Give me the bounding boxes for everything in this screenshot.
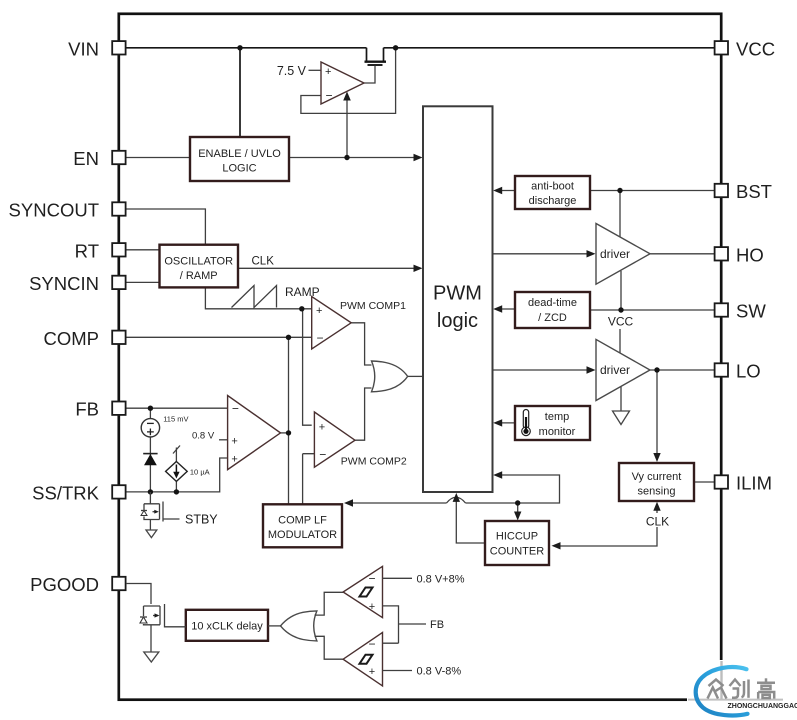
svg-text:0.8 V+8%: 0.8 V+8% [417,573,465,585]
svg-text:−: − [232,402,239,416]
svg-text:anti-boot: anti-boot [531,181,574,193]
svg-text:VCC: VCC [608,315,634,329]
svg-text:STBY: STBY [185,513,218,527]
svg-text:ILIM: ILIM [736,473,772,494]
svg-text:+: + [325,66,331,78]
svg-text:SW: SW [736,301,766,322]
svg-text:/ RAMP: / RAMP [180,270,218,282]
svg-text:ENABLE / UVLO: ENABLE / UVLO [198,148,281,160]
svg-text:0.8 V: 0.8 V [192,431,215,442]
svg-text:0.8 V-8%: 0.8 V-8% [417,665,462,677]
svg-text:+: + [316,305,322,317]
svg-text:OSCILLATOR: OSCILLATOR [164,255,233,267]
svg-text:logic: logic [437,310,478,332]
svg-text:SYNCOUT: SYNCOUT [9,200,99,221]
svg-text:VIN: VIN [68,38,99,59]
svg-text:−: − [368,572,375,586]
svg-text:driver: driver [600,363,630,377]
svg-text:+: + [231,454,237,466]
svg-text:PWM: PWM [433,283,482,305]
svg-text:+: + [369,666,375,678]
svg-text:HO: HO [736,244,764,265]
svg-text:+: + [319,422,325,434]
svg-text:LOGIC: LOGIC [222,163,256,175]
svg-text:RT: RT [75,240,99,261]
svg-text:CLK: CLK [646,515,669,529]
svg-text:115 mV: 115 mV [163,415,188,424]
svg-text:/ ZCD: / ZCD [538,312,567,324]
svg-text:monitor: monitor [539,426,576,438]
svg-text:COUNTER: COUNTER [490,546,544,558]
svg-text:−: − [326,89,333,103]
svg-text:PWM COMP1: PWM COMP1 [340,300,406,312]
svg-text:+: + [231,436,237,448]
svg-text:driver: driver [600,247,630,261]
svg-text:10 xCLK delay: 10 xCLK delay [191,621,263,633]
svg-text:dead-time: dead-time [528,297,577,309]
svg-text:PWM COMP2: PWM COMP2 [341,456,407,468]
svg-text:−: − [317,331,324,345]
svg-text:VCC: VCC [736,38,775,59]
svg-text:+: + [369,601,375,613]
svg-text:discharge: discharge [529,195,577,207]
svg-text:FB: FB [430,619,444,631]
svg-text:sensing: sensing [638,486,676,498]
svg-text:RAMP: RAMP [285,285,320,299]
svg-text:SYNCIN: SYNCIN [29,273,99,294]
svg-text:−: − [319,447,326,461]
svg-text:FB: FB [75,399,99,420]
svg-text:SS/TRK: SS/TRK [32,482,99,503]
svg-text:10 µA: 10 µA [190,468,210,477]
svg-text:HICCUP: HICCUP [496,531,538,543]
svg-text:BST: BST [736,181,772,202]
svg-text:MODULATOR: MODULATOR [268,529,337,541]
svg-text:temp: temp [545,411,569,423]
svg-text:Vy current: Vy current [632,471,682,483]
svg-text:COMP: COMP [44,328,100,349]
svg-text:ZHONGCHUANGGAO: ZHONGCHUANGGAO [728,703,797,710]
svg-text:7.5 V: 7.5 V [277,64,307,78]
svg-text:EN: EN [73,148,99,169]
svg-text:PGOOD: PGOOD [30,574,99,595]
svg-text:LO: LO [736,361,761,382]
svg-text:−: − [368,637,375,651]
svg-text:CLK: CLK [252,256,275,268]
svg-text:COMP LF: COMP LF [278,515,327,527]
